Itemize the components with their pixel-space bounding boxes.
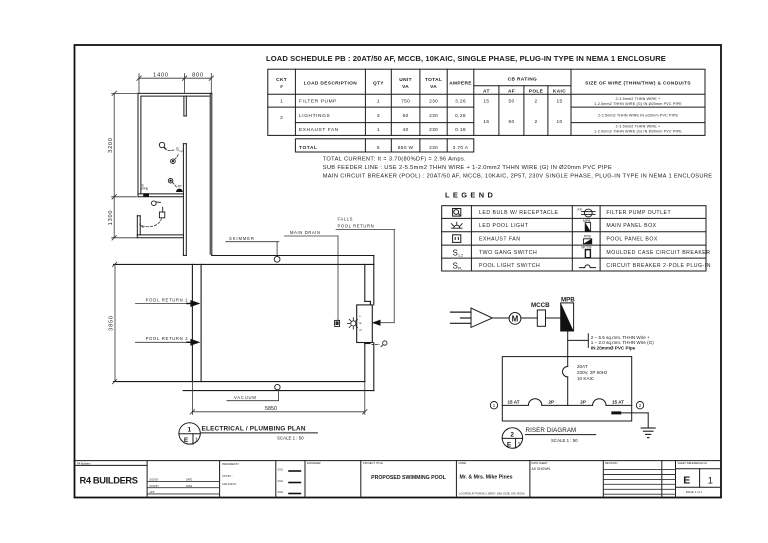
wire MCCB to MPB	[546, 317, 561, 319]
svg-text:MAIN PANEL BOX: MAIN PANEL BOX	[606, 223, 656, 229]
svg-text:L: L	[360, 314, 362, 318]
svg-text:POOL RETURN 2: POOL RETURN 2	[146, 336, 189, 341]
svg-text:1: 1	[377, 99, 380, 105]
border frame	[75, 45, 722, 498]
legend symbol: LED bulb w/ receptacle	[453, 209, 461, 217]
svg-text:AT: AT	[483, 89, 490, 95]
receptacle symbol lower	[168, 178, 173, 183]
legend table grid	[442, 206, 706, 271]
suction pipe run from pump room	[183, 255, 374, 391]
svg-text:PROPOSED SWIMMING POOL: PROPOSED SWIMMING POOL	[371, 475, 446, 481]
main breaker drop with loop	[563, 357, 568, 406]
svg-text:MCCB: MCCB	[531, 302, 550, 309]
svg-text:1: 1	[280, 99, 283, 105]
vacuum fitting near niche	[372, 341, 387, 347]
svg-text:1-2.0mm2 THHN WIRE (G) IN Ø20m: 1-2.0mm2 THHN WIRE (G) IN Ø20mm PVC PIPE	[594, 130, 682, 134]
svg-text:1: 1	[195, 438, 198, 444]
wiring switch to wall (dashed arc)	[142, 218, 162, 227]
svg-text:LED BULB W/ RECEPTACLE: LED BULB W/ RECEPTACLE	[479, 210, 559, 216]
MPB box with filled triangle	[561, 303, 574, 331]
pool right inner wall upper	[364, 264, 366, 301]
svg-text:15: 15	[483, 99, 489, 105]
svg-text:FILTER PUMP OUTLET: FILTER PUMP OUTLET	[606, 210, 671, 216]
svg-text:230: 230	[429, 145, 438, 151]
left dimension 1300	[112, 197, 137, 240]
circuit number 2	[636, 402, 643, 409]
legend descriptions	[479, 210, 711, 269]
svg-text:1300: 1300	[108, 210, 114, 226]
service entrance triangle	[471, 308, 492, 327]
svg-text:AMPERE: AMPERE	[449, 81, 472, 87]
pool outline top edge	[114, 264, 375, 381]
svg-text:5: 5	[377, 145, 380, 151]
lower room ceiling light	[152, 201, 161, 206]
ground wire	[621, 413, 648, 428]
svg-text:1,2: 1,2	[179, 149, 183, 153]
svg-text:230: 230	[429, 127, 438, 133]
meter M	[509, 313, 521, 325]
svg-text:0.18: 0.18	[455, 127, 466, 133]
total row box	[295, 139, 473, 152]
lower room bottom wall	[137, 234, 183, 236]
svg-text:TWO GANG SWITCH: TWO GANG SWITCH	[479, 250, 537, 256]
svg-text:SGD.: SGD.	[278, 469, 284, 472]
svg-text:SCALE 1 : 50: SCALE 1 : 50	[551, 438, 578, 443]
svg-text:50: 50	[508, 99, 514, 105]
pool panel box	[502, 357, 631, 421]
main breaker rating text	[577, 364, 608, 381]
pool right inner wall lower	[365, 343, 370, 345]
svg-text:FP: FP	[178, 185, 182, 189]
svg-text:EXHAUST FAN: EXHAUST FAN	[479, 237, 520, 243]
svg-text:NAME: NAME	[459, 461, 467, 465]
svg-text:Mr. & Mrs. Mike Pines: Mr. & Mrs. Mike Pines	[460, 475, 513, 481]
svg-text:0.28: 0.28	[455, 113, 466, 119]
plan title callout circle	[179, 423, 200, 444]
svg-text:1 – 2.0 sq.mm. THHN Wire (G): 1 – 2.0 sq.mm. THHN Wire (G)	[591, 340, 654, 345]
svg-text:IN 20mmØ PVC Pipe: IN 20mmØ PVC Pipe	[591, 346, 636, 351]
svg-text:POOL RETURN 1: POOL RETURN 1	[146, 297, 189, 302]
svg-text:230V, 2P 60Hz: 230V, 2P 60Hz	[577, 370, 608, 375]
signature dashes cell	[289, 471, 300, 494]
svg-text:FILTER PUMP: FILTER PUMP	[299, 99, 337, 105]
svg-text:ENGINEER: ENGINEER	[307, 461, 321, 465]
circuit number 1	[490, 402, 497, 409]
svg-text:MAIN CIRCUIT BREAKER (POOL) :: MAIN CIRCUIT BREAKER (POOL) : 20AT/50 AF…	[323, 174, 713, 180]
wire meter to MCCB	[521, 317, 537, 319]
middle wall main run	[182, 144, 184, 256]
top dimension 1400 / 800	[137, 74, 214, 93]
svg-text:SIZE OF WIRE (THHN/THW) & COND: SIZE OF WIRE (THHN/THW) & CONDUITS	[585, 81, 691, 87]
svg-text:FALLS: FALLS	[338, 217, 354, 222]
wire to meter	[492, 317, 509, 319]
svg-text:E: E	[184, 437, 189, 444]
svg-text:CB RATING: CB RATING	[508, 77, 537, 83]
svg-text:R4 BUILDERS: R4 BUILDERS	[80, 476, 138, 486]
vertical column lines	[294, 69, 296, 135]
notes under table	[323, 157, 713, 180]
MCCB box	[537, 310, 545, 326]
svg-text:APP: APP	[150, 491, 155, 494]
svg-text:ELECTRICAL / PLUMBING PLAN: ELECTRICAL / PLUMBING PLAN	[202, 426, 306, 433]
svg-text:MCCB: MCCB	[582, 245, 593, 249]
svg-text:15 AT: 15 AT	[612, 400, 624, 405]
pump room walls	[137, 93, 212, 255]
svg-text:PPB: PPB	[142, 187, 148, 191]
legend symbol: circuit breaker 2-pole plug-in	[580, 265, 596, 268]
svg-text:DATE: DATE	[186, 485, 193, 488]
svg-text:TOTAL: TOTAL	[299, 145, 318, 151]
skimmer fitting circle	[274, 256, 280, 262]
svg-text:VACUUM: VACUUM	[234, 395, 257, 400]
lower room left wall	[136, 216, 138, 238]
svg-text:VA: VA	[402, 84, 409, 90]
svg-text:3: 3	[377, 113, 380, 119]
ground symbol	[641, 428, 655, 438]
svg-text:50: 50	[403, 113, 409, 119]
svg-text:PPB: PPB	[584, 235, 592, 239]
svg-text:1: 1	[708, 475, 713, 486]
svg-text:CKT: CKT	[276, 77, 287, 83]
pool light niche box	[357, 305, 373, 343]
svg-text:PROJECT TITLE: PROJECT TITLE	[363, 461, 383, 465]
svg-text:EXHAUST FAN: EXHAUST FAN	[299, 127, 339, 133]
svg-text:M: M	[512, 314, 519, 323]
svg-text:1,2: 1,2	[458, 254, 463, 258]
svg-text:20AT: 20AT	[577, 364, 588, 369]
svg-text:CAD FILE ID :: CAD FILE ID :	[222, 483, 237, 486]
table row data	[280, 99, 562, 151]
svg-text:CIRCUIT BREAKER 2-POLE PLUG-IN: CIRCUIT BREAKER 2-POLE PLUG-IN	[606, 263, 711, 269]
svg-text:SUB FEEDER LINE : USE 2-5.5mm: SUB FEEDER LINE : USE 2-5.5mm2 THHN WIRE…	[323, 165, 612, 171]
svg-text:1: 1	[377, 127, 380, 133]
svg-text:LOCATED AT PUROK 2, BRGY. SAN: LOCATED AT PUROK 2, BRGY. SAN JOSE, STA.…	[459, 491, 525, 495]
svg-text:TOTAL: TOTAL	[425, 77, 442, 83]
svg-text:SGD.: SGD.	[278, 480, 284, 483]
svg-text:LOAD DESCRIPTION: LOAD DESCRIPTION	[304, 81, 357, 87]
svg-text:2-3.5mm2 THHN WIRE IN ø20mm PV: 2-3.5mm2 THHN WIRE IN ø20mm PVC PIPE	[598, 114, 679, 118]
falls return arrow into niche	[372, 320, 381, 326]
right wall	[209, 93, 211, 254]
svg-text:MAIN DRAIN: MAIN DRAIN	[290, 230, 321, 235]
svg-text:#: #	[280, 84, 283, 90]
wiring light to pool light switch	[162, 207, 164, 212]
bottom dimension 5850	[190, 382, 367, 415]
ground lug	[611, 411, 621, 414]
svg-text:1-2.0mm2 THHN WIRE (G) IN Ø20m: 1-2.0mm2 THHN WIRE (G) IN Ø20mm PVC PIPE	[594, 102, 682, 106]
svg-text:AS SHOWN: AS SHOWN	[532, 467, 551, 471]
title block grid	[74, 461, 721, 498]
left wall upper	[137, 93, 139, 196]
wire size column text	[594, 97, 682, 134]
CB rating subheader line	[474, 85, 571, 87]
svg-text:AF: AF	[508, 89, 515, 95]
svg-text:CK'D BY :: CK'D BY :	[222, 475, 233, 478]
svg-text:15: 15	[556, 99, 562, 105]
svg-text:10 KAIC: 10 KAIC	[577, 376, 595, 381]
feeder wire down from MPB	[568, 331, 589, 357]
svg-text:RISER DIAGRAM: RISER DIAGRAM	[526, 427, 577, 434]
svg-text:750: 750	[401, 99, 410, 105]
svg-text:PL: PL	[458, 267, 462, 271]
signature rows cell	[147, 481, 220, 494]
svg-text:2P: 2P	[580, 400, 586, 405]
svg-text:POLE: POLE	[529, 89, 544, 95]
svg-text:2: 2	[639, 403, 642, 408]
svg-text:3.70 A: 3.70 A	[453, 145, 469, 151]
legend symbol: LED pool light	[451, 222, 462, 228]
svg-text:2-3.5mm2 THHN WIRE +: 2-3.5mm2 THHN WIRE +	[616, 125, 661, 129]
svg-text:MOULDED CASE CIRCUIT BREAKER: MOULDED CASE CIRCUIT BREAKER	[606, 250, 710, 256]
riser title callout circle	[502, 428, 522, 448]
row lines	[268, 106, 474, 108]
svg-text:E: E	[683, 475, 690, 487]
pump room bottom wall	[138, 193, 183, 195]
svg-text:SKIMMER: SKIMMER	[229, 236, 255, 241]
pool bottom	[114, 381, 366, 383]
svg-text:POOL PANEL BOX: POOL PANEL BOX	[606, 237, 658, 243]
feeder wire note	[591, 335, 654, 351]
svg-text:POOL LIGHT SWITCH: POOL LIGHT SWITCH	[479, 263, 540, 269]
left dimension 3200	[112, 91, 137, 199]
svg-text:1400: 1400	[153, 73, 169, 79]
svg-text:LIGHTINGS: LIGHTINGS	[299, 113, 330, 119]
pool light switch box in lower room	[159, 212, 164, 218]
svg-text:D: D	[360, 328, 363, 332]
wiring bulb to switch (dashed)	[165, 149, 176, 151]
legend symbol: exhaust fan	[453, 235, 461, 243]
svg-text:800: 800	[192, 73, 204, 79]
LED bulb symbol in pump room	[159, 142, 166, 149]
svg-text:E: E	[360, 321, 362, 325]
svg-text:SHEET REFERENCE No.: SHEET REFERENCE No.	[678, 461, 708, 465]
pool light symbol with rays	[348, 318, 358, 330]
svg-text:PAGE 1 of 1: PAGE 1 of 1	[686, 490, 703, 494]
svg-text:LEGEND: LEGEND	[445, 191, 496, 200]
branch labels	[508, 400, 625, 405]
PPB panel on pump room wall	[143, 193, 149, 196]
svg-text:VA: VA	[430, 84, 437, 90]
svg-text:5850: 5850	[265, 406, 277, 412]
svg-text:2 – 5.5 sq.mm. THHN Wire +: 2 – 5.5 sq.mm. THHN Wire +	[591, 335, 650, 340]
svg-text:E: E	[507, 441, 512, 448]
svg-text:REVISION: REVISION	[605, 461, 618, 465]
main drain box in pool	[335, 320, 340, 326]
svg-text:SCALE 1 : 50: SCALE 1 : 50	[277, 435, 304, 440]
svg-text:LOAD SCHEDULE PB : 20AT/50 AF,: LOAD SCHEDULE PB : 20AT/50 AF, MCCB, 10K…	[266, 54, 666, 63]
svg-text:LED POOL LIGHT: LED POOL LIGHT	[479, 223, 529, 229]
svg-text:2: 2	[534, 119, 537, 125]
svg-text:QTY: QTY	[373, 81, 384, 87]
svg-text:2-3.5mm2 THHN WIRE +: 2-3.5mm2 THHN WIRE +	[616, 97, 661, 101]
svg-text:230: 230	[429, 99, 438, 105]
svg-text:3850: 3850	[109, 315, 115, 331]
svg-text:PREPARED BY :: PREPARED BY :	[222, 463, 240, 466]
svg-text:3.26: 3.26	[455, 99, 466, 105]
svg-text:SGD.: SGD.	[278, 491, 284, 494]
svg-text:UNIT: UNIT	[399, 77, 412, 83]
svg-text:1: 1	[493, 403, 496, 408]
wiring fan to wall (dashed)	[175, 154, 179, 160]
svg-text:230: 230	[429, 113, 438, 119]
svg-text:15 AT: 15 AT	[508, 400, 520, 405]
vacuum fitting circle on pool bottom	[275, 384, 280, 389]
svg-text:SGD BY: SGD BY	[150, 479, 159, 482]
svg-text:2: 2	[534, 99, 537, 105]
svg-text:TOTAL CURRENT: It = 3.70(80: TOTAL CURRENT: It = 3.70(80%DF) = 2.96 A…	[323, 157, 466, 163]
table header text	[276, 77, 691, 95]
svg-text:2: 2	[280, 115, 283, 121]
top wall	[138, 92, 212, 94]
header bottom line	[268, 93, 705, 95]
svg-text:R4 Builders: R4 Builders	[77, 461, 91, 465]
svg-text:40: 40	[403, 127, 409, 133]
svg-text:1: 1	[517, 442, 520, 448]
wiring receptacle to FP outlet (dashed)	[172, 182, 176, 187]
FP outlet (filled half dome on wall)	[176, 189, 183, 192]
middle wall stub from top	[183, 96, 185, 116]
svg-text:15: 15	[483, 119, 489, 125]
svg-text:850 W: 850 W	[398, 145, 414, 151]
panel bus with branch breakers	[502, 399, 631, 406]
svg-text:POOL RETURN: POOL RETURN	[338, 224, 375, 229]
svg-text:10: 10	[556, 119, 562, 125]
svg-text:1: 1	[187, 427, 191, 434]
approvals cell labels	[222, 463, 240, 486]
left dimension 3850	[112, 262, 116, 384]
svg-text:3200: 3200	[108, 137, 114, 153]
svg-text:DATE SHEET: DATE SHEET	[532, 461, 549, 465]
svg-text:50: 50	[508, 119, 514, 125]
svg-text:2P: 2P	[549, 400, 555, 405]
svg-text:DATE: DATE	[186, 479, 193, 482]
load schedule table grid	[268, 69, 705, 152]
svg-text:2: 2	[510, 431, 514, 438]
service entrance lines	[451, 312, 472, 323]
exhaust fan symbol	[171, 159, 176, 164]
svg-text:CK'D BY: CK'D BY	[150, 485, 160, 488]
svg-text:KAIC: KAIC	[553, 89, 566, 95]
pool left wall double	[191, 264, 193, 381]
